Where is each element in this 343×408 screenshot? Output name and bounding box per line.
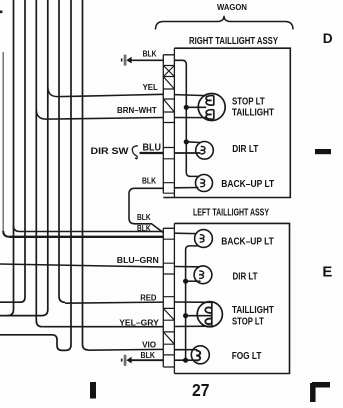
wire: BLU-GRN lead to dir lamp (left assy) — [174, 266, 199, 268]
DIR SW continuation squiggle — [132, 146, 137, 159]
svg-text:DIR LT: DIR LT — [233, 271, 258, 282]
wire: YEL-GRY from V2 to left connector — [42, 326, 163, 328]
bottom-right corner crop mark — [312, 383, 330, 402]
svg-text:27: 27 — [192, 380, 210, 400]
junction dot on bus at stop/tail lamp — [184, 105, 189, 110]
wire: vertical trunk V5 x=59 (to RED) — [59, 0, 65, 302]
svg-text:DIR LT: DIR LT — [232, 144, 258, 155]
wire: dir lamp lead from bus dot — [186, 141, 200, 144]
junction dot on bus at taillight/stop lamp (left assy) — [183, 313, 188, 318]
wire: common lead from bus dot to taillight/stop lamp (left assy) — [186, 315, 212, 317]
svg-text:E: E — [322, 264, 332, 280]
wire: BLK lead to back-up lamp (left assy) — [174, 232, 196, 234]
bottom-left bold bar marker — [90, 382, 96, 399]
wire: RED from V5 to left connector — [65, 302, 163, 303]
wire: VIO lead to fog lamp (left assy) — [174, 349, 197, 351]
svg-text:BACK–UP LT: BACK–UP LT — [221, 236, 273, 247]
svg-text:BACK–UP LT: BACK–UP LT — [221, 179, 274, 190]
svg-text:STOP LT: STOP LT — [232, 316, 264, 327]
svg-text:LEFT TAILLIGHT ASSY: LEFT TAILLIGHT ASSY — [193, 208, 269, 219]
left taillight assy box — [174, 223, 289, 373]
svg-text:FOG LT: FOG LT — [232, 351, 262, 362]
connector (left assy) outline — [163, 223, 174, 373]
svg-text:RIGHT TAILLIGHT ASSY: RIGHT TAILLIGHT ASSY — [189, 36, 278, 47]
wire: YEL-GRY lead to stop filament (left assy) — [174, 325, 211, 327]
wire: vertical trunk V7 x=82.5 (to VIO) — [83, 0, 89, 350]
connector (right assy) diagonal terminal cell 1 — [163, 77, 174, 90]
svg-text:TAILLIGHT: TAILLIGHT — [232, 305, 274, 316]
svg-text:BLK: BLK — [143, 49, 157, 59]
wire: vertical trunk x=3.2 (thick BLK feeder, faint) — [2, 52, 4, 231]
connector (left assy) diagonal terminal cell 2 — [163, 332, 174, 344]
wire: YEL lead to stop filament — [174, 95, 206, 96]
wire: dir lamp lower lead from bus dot (left assy) — [186, 280, 201, 282]
brace: WAGON group — [156, 16, 294, 30]
svg-text:BLK: BLK — [141, 350, 156, 360]
svg-text:D: D — [323, 31, 333, 46]
wire: corner of thick BLK feeder — [3, 231, 9, 237]
wire: vertical trunk V2 x=25 (exits page-left at y=302.2) — [0, 0, 25, 302]
wire: BLK right-assy bottom exit going left and down to left assy — [129, 188, 163, 232]
lamp: BACK-UP LT (left) — [195, 230, 213, 248]
svg-text:VIO: VIO — [142, 340, 156, 350]
wire: branch curve V3 to BRN-WHT — [36, 109, 70, 119]
wire: BLK ground bottom (chassis to left connector) — [131, 359, 163, 361]
lamp: BACK-UP LT (right) — [196, 175, 213, 192]
svg-text:RED: RED — [140, 293, 156, 303]
wire: bus from back-up lamp down (left assy) — [186, 246, 199, 360]
chassis ground symbol (bottom, left assy BLK) — [121, 355, 132, 366]
wire: BLU lead to dir lamp — [174, 152, 200, 154]
wire: BRN-WHT lead to tail filament — [174, 117, 206, 119]
svg-text:WAGON: WAGON — [217, 3, 247, 12]
lamp: STOP LT / TAILLIGHT (right, double filament) — [198, 94, 225, 121]
wire: vertical trunk V6 x=71 (exits page-left via jog at y=334.8) — [0, 0, 71, 350]
svg-text:BLU: BLU — [143, 143, 162, 154]
svg-text:BLK: BLK — [137, 223, 151, 233]
connector (right assy) diagonal terminal cell 2 — [163, 99, 174, 112]
connector (right assy) cell dividers — [163, 66, 174, 194]
svg-text:BLK: BLK — [142, 176, 156, 186]
connector (left assy) cell dividers — [163, 239, 174, 367]
wire: YEL horizontal to right connector — [80, 94, 163, 96]
svg-text:YEL–GRY: YEL–GRY — [119, 317, 159, 327]
wire: BLK bus inside right box — [174, 60, 199, 176]
lamp: DIR LT (right) — [196, 142, 214, 160]
svg-text:BLU–GRN: BLU–GRN — [117, 255, 159, 265]
wire: vertical trunk V4 x=47.8 (exits page-left at y=315.6) — [7, 0, 48, 316]
junction dot on bus at dir lamp — [184, 139, 189, 144]
connector (right assy) X terminal cell — [163, 66, 174, 77]
chassis ground symbol (top, right assy BLK) — [121, 55, 132, 66]
svg-text:DIR SW: DIR SW — [91, 146, 130, 157]
junction dot on bus at dir lamp (left assy) — [183, 279, 188, 284]
wire: BLK ground top (chassis to right connector) — [131, 59, 163, 61]
grid tick dash (right margin) — [315, 149, 331, 154]
wire: VIO from V7 to left connector — [88, 348, 163, 351]
wire: BLK lead to back-up lamp — [174, 187, 198, 189]
wire: branch curve V1 to thin BLK — [14, 226, 20, 232]
lamp: TAILLIGHT / STOP LT (left, double filament) — [197, 302, 222, 327]
wire: RED lead to taillight filament (left assy) — [174, 301, 211, 303]
lamp: DIR LT (left) — [194, 266, 212, 284]
wire: BLK lead through bus dot to fog lamp (left assy) — [174, 359, 197, 361]
connector (right assy) outline — [163, 48, 174, 197]
wire: thick BLK from trunk x=3.6 to left connector — [9, 236, 163, 238]
wire: BRN-WHT horizontal to right connector — [70, 118, 163, 119]
right taillight assy box — [163, 48, 290, 197]
svg-text:YEL: YEL — [143, 82, 158, 92]
wire: common lead from bus dot to stop/tail lamp — [186, 106, 206, 108]
wire: BLU-GRN from page-left to left connector — [0, 264, 163, 267]
wire: page-edge tick (top-left) — [0, 11, 2, 14]
wire: branch curve V4 to YEL — [48, 87, 80, 97]
svg-text:BRN–WHT: BRN–WHT — [117, 105, 157, 115]
lamp: FOG LT (left) — [191, 346, 209, 364]
wire: vertical trunk V1 x=13.5 (exits page-left at y=315.6) — [0, 0, 14, 316]
wire: BLU from DIR SW to right connector — [140, 152, 164, 154]
svg-text:BLK: BLK — [137, 212, 151, 222]
junction dot on bus at fog lamp (left assy) — [183, 358, 188, 363]
svg-text:STOP LT: STOP LT — [232, 96, 265, 107]
connector (left assy) diagonal terminal cell 1 — [163, 308, 174, 320]
svg-text:TAILLIGHT: TAILLIGHT — [232, 108, 274, 119]
wire: vertical trunk V3 x=36.3 (to YEL-GRY) — [36, 0, 42, 327]
wire: thin BLK from V1 to left connector — [20, 231, 164, 233]
